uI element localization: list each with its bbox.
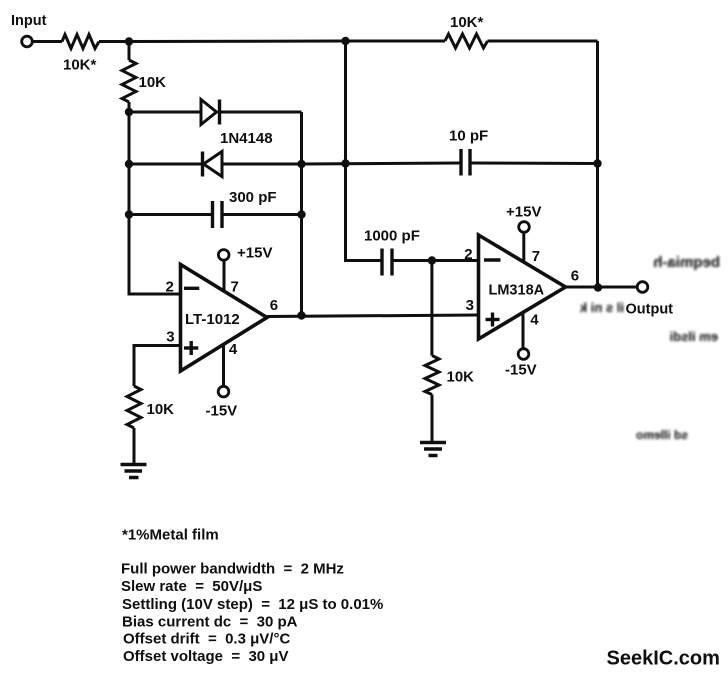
- svg-text:Offset voltage = 30 μV: Offset voltage = 30 μV: [123, 648, 288, 665]
- node junction right vertical row2: [297, 160, 305, 168]
- pin 6 label U1: [270, 297, 278, 314]
- svg-text:beqmia-h: beqmia-h: [653, 254, 720, 271]
- 10K* value label (input): [63, 57, 97, 74]
- 10K value label (R4): [147, 401, 175, 418]
- svg-text:10 pF: 10 pF: [449, 128, 488, 145]
- node E junction (1000pF / 10K): [428, 256, 436, 264]
- 1N4148 value label: [220, 130, 273, 147]
- capacitor C1 300 pF: [213, 201, 223, 228]
- pin 2 label U1: [166, 278, 174, 295]
- svg-text:Settling (10V step) = 12 μS: Settling (10V step) = 12 μS to 0.01%: [122, 596, 383, 613]
- note: bias current: [122, 614, 298, 631]
- svg-text:10K: 10K: [147, 401, 175, 418]
- wire R2 to top-right corner: [488, 40, 598, 43]
- node F junction: [341, 37, 349, 45]
- resistor R2 10K* (feedback, top): [445, 34, 488, 48]
- wire C3 to U2 pin 2: [394, 259, 479, 262]
- wire top row node A to node F: [129, 40, 346, 44]
- capacitor C3 1000 pF: [382, 249, 392, 276]
- svg-text:10K*: 10K*: [450, 14, 484, 31]
- wire node A down to R3: [128, 42, 131, 61]
- note: offset voltage: [123, 648, 288, 665]
- pin 3 label U1: [166, 328, 174, 345]
- resistor R4 10K (U1 pin3 to ground): [127, 386, 141, 428]
- Input label: [11, 13, 47, 29]
- wire U1 output row: [267, 315, 479, 317]
- wire R4 to ground: [133, 428, 136, 464]
- svg-text:4: 4: [530, 312, 539, 329]
- svg-text:7: 7: [231, 278, 239, 295]
- svg-text:6: 6: [571, 267, 579, 284]
- diode D2 1N4148 (pointing left): [203, 152, 223, 177]
- svg-text:Bias current dc = 30 pA: Bias current dc = 30 pA: [122, 614, 298, 631]
- 10K value label (R3): [139, 74, 167, 91]
- svg-text:4: 4: [229, 341, 238, 358]
- 10K value label (R5): [447, 369, 475, 386]
- resistor R5 10K (to ground, right): [425, 356, 439, 395]
- input terminal: [22, 36, 33, 47]
- svg-text:10K: 10K: [447, 369, 475, 386]
- pin 7 label U1: [231, 278, 239, 295]
- -15V label U2: [505, 362, 537, 379]
- svg-text:+15V: +15V: [506, 204, 541, 221]
- -15V terminal U1: [218, 386, 229, 397]
- 1000 pF value label: [364, 228, 420, 245]
- wire R1 to node A: [99, 40, 129, 43]
- svg-text:SeekIC.com: SeekIC.com: [607, 648, 720, 670]
- wire to capacitor C1: [129, 213, 211, 216]
- svg-text:Full power bandwidth = 2 MHz: Full power bandwidth = 2 MHz: [121, 561, 344, 578]
- pin 3 label U2: [466, 297, 474, 314]
- wire U2 pin 4 to -15V: [522, 313, 525, 350]
- wire right vertical feedback: [596, 41, 599, 288]
- op-amp U1 LT-1012: [181, 265, 268, 372]
- pin 4 label U2: [530, 312, 539, 329]
- ground (left): [121, 465, 147, 478]
- node A junction: [125, 37, 133, 45]
- node D junction (300pF row left): [125, 210, 133, 218]
- 10K* value label (feedback): [450, 14, 484, 31]
- svg-text:300 pF: 300 pF: [229, 189, 277, 206]
- output terminal: [637, 282, 648, 293]
- pin 4 label U1: [229, 341, 238, 358]
- svg-text:3: 3: [166, 328, 174, 345]
- op-amp U2 LM318A: [479, 235, 566, 339]
- svg-text:Offset drift = 0.3 μV/°C: Offset drift = 0.3 μV/°C: [123, 631, 290, 648]
- svg-text:1000 pF: 1000 pF: [364, 228, 420, 245]
- note: metal film: [122, 527, 219, 544]
- wire input terminal to R1: [33, 40, 62, 43]
- wire D1 to right vertical: [221, 111, 302, 114]
- +15V terminal U1: [218, 250, 229, 261]
- note: slew rate: [121, 578, 262, 595]
- pin 2 label U2: [464, 246, 472, 263]
- Output label: [626, 302, 674, 318]
- svg-text:-15V: -15V: [505, 362, 537, 379]
- 10 pF value label: [449, 128, 488, 145]
- svg-text:LT-1012: LT-1012: [185, 311, 240, 328]
- svg-text:sd illemo: sd illemo: [636, 428, 688, 442]
- svg-text:Input: Input: [11, 13, 47, 29]
- wire diode-box right vertical: [300, 112, 303, 316]
- node B junction (diode row 1): [125, 108, 133, 116]
- wire node E down to R5: [430, 261, 433, 356]
- wire U2 pin 7 to +15V: [522, 233, 525, 263]
- wire pin2 of U1: [129, 293, 181, 296]
- svg-text:em ilsdi: em ilsdi: [670, 329, 718, 344]
- svg-text:il s ni k: il s ni k: [579, 300, 624, 315]
- svg-text:-15V: -15V: [206, 403, 238, 420]
- ground (right): [420, 443, 446, 456]
- svg-text:1N4148: 1N4148: [220, 130, 273, 147]
- svg-text:10K*: 10K*: [63, 57, 97, 74]
- svg-text:LM318A: LM318A: [489, 283, 545, 299]
- watermark SeekIC.com: [607, 648, 720, 670]
- 300 pF value label: [229, 189, 277, 206]
- wire to diode D2: [129, 163, 202, 166]
- node junction right vertical row3: [297, 210, 305, 218]
- pin 6 label U2: [571, 267, 579, 284]
- wire C1 to right vertical: [224, 213, 302, 216]
- svg-text:10K: 10K: [139, 74, 167, 91]
- wire R5 to ground: [431, 395, 434, 443]
- svg-text:2: 2: [464, 246, 472, 263]
- svg-text:Output: Output: [626, 302, 674, 318]
- svg-text:7: 7: [532, 248, 540, 265]
- svg-text:3: 3: [466, 297, 474, 314]
- wire to diode D1: [129, 111, 201, 114]
- wire node F to R2: [346, 40, 446, 43]
- wire D2 to right vertical: [222, 163, 302, 166]
- +15V terminal U2: [519, 222, 530, 233]
- resistor R1 10K* (input): [62, 35, 99, 49]
- svg-text:2: 2: [166, 278, 174, 295]
- node junction 10pF row right: [593, 159, 601, 167]
- node junction 10pF row mid: [341, 159, 349, 167]
- wire U1 pin 4 to -15V: [222, 344, 225, 386]
- wire 10pF row left segment: [302, 163, 460, 164]
- diode D1 1N4148 (pointing right): [201, 100, 220, 125]
- capacitor C2 10 pF: [461, 149, 470, 176]
- wire U2 output to terminal: [566, 286, 638, 289]
- +15V label U1: [237, 245, 272, 262]
- -15V label U1: [206, 403, 238, 420]
- wire U1 pin 7 to +15V: [223, 260, 226, 292]
- node junction output row: [594, 283, 602, 291]
- wire R3 down left vertical to pin2 corner: [128, 102, 131, 296]
- note: settling: [122, 596, 383, 613]
- note: full power bandwidth: [121, 561, 344, 578]
- svg-text:*1%Metal film: *1%Metal film: [122, 527, 219, 544]
- note: offset drift: [123, 631, 290, 648]
- resistor R3 10K (left vertical): [122, 60, 136, 102]
- wire U1 pin 3: [134, 346, 181, 387]
- +15V label U2: [506, 204, 541, 221]
- svg-text:+15V: +15V: [237, 245, 272, 262]
- -15V terminal U2: [518, 349, 529, 360]
- svg-text:6: 6: [270, 297, 278, 314]
- pin 7 label U2: [532, 248, 540, 265]
- wire 10pF row right segment: [472, 162, 598, 166]
- node junction right vertical on output row: [297, 311, 305, 319]
- svg-text:Slew rate = 50V/μS: Slew rate = 50V/μS: [121, 578, 262, 595]
- node C junction (diode row 2 left): [125, 160, 133, 168]
- wire node F vertical down to 1000pF: [346, 41, 381, 261]
